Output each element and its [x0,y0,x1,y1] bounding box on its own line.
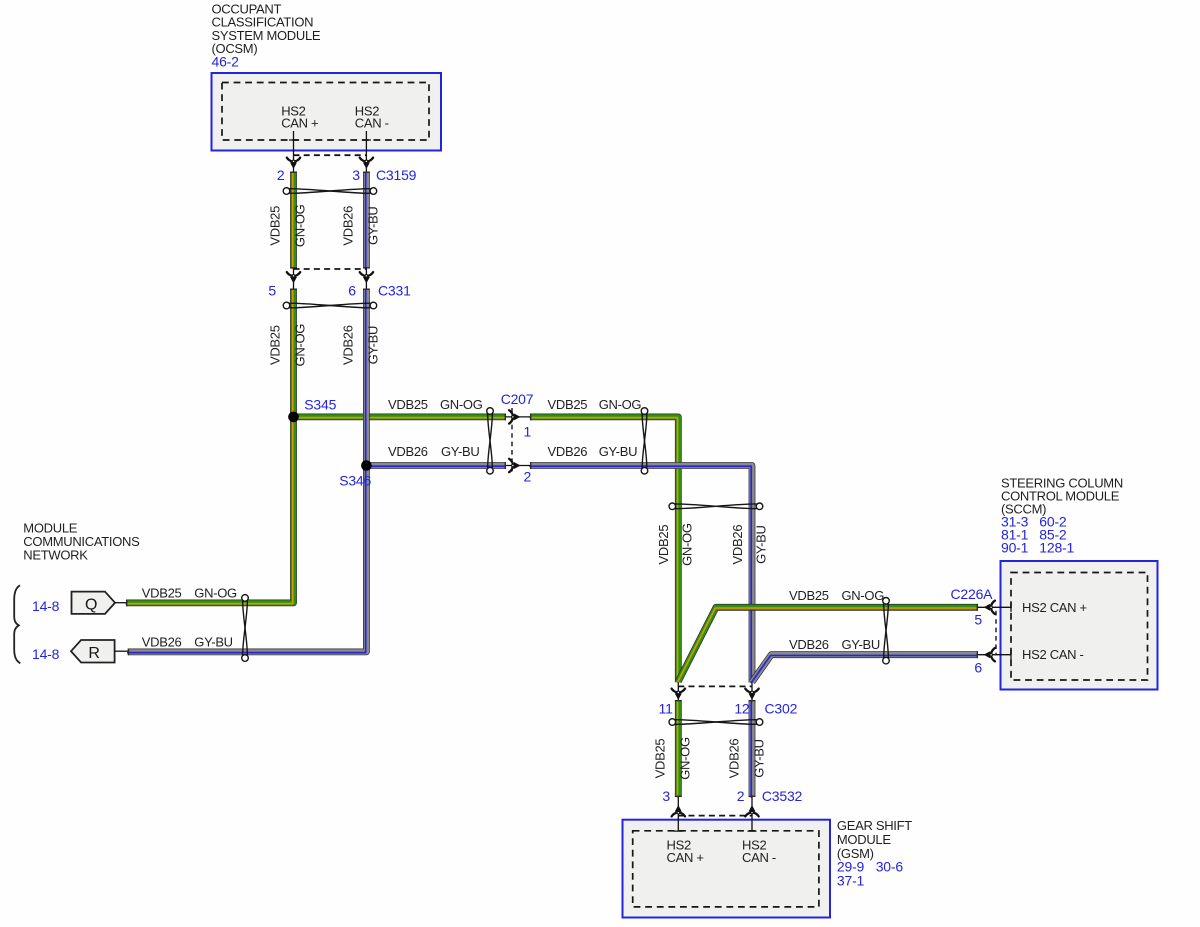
svg-text:VDB26: VDB26 [340,206,355,246]
svg-text:VDB26: VDB26 [789,637,829,652]
svg-text:128-1: 128-1 [1039,539,1074,555]
svg-text:GY-BU: GY-BU [752,739,767,777]
svg-text:VDB25: VDB25 [268,325,283,365]
svg-text:NETWORK: NETWORK [23,548,88,563]
svg-text:6: 6 [974,659,982,675]
svg-text:C3159: C3159 [376,167,417,183]
svg-text:GY-BU: GY-BU [365,326,380,364]
svg-text:14-8: 14-8 [32,646,60,662]
svg-text:1: 1 [524,423,532,439]
svg-text:GY-BU: GY-BU [441,444,479,459]
svg-text:GY-BU: GY-BU [842,637,880,652]
svg-text:MODULE: MODULE [837,832,891,847]
svg-text:C207: C207 [501,391,534,407]
svg-text:VDB26: VDB26 [388,444,428,459]
svg-text:VDB25: VDB25 [656,525,671,565]
svg-text:VDB26: VDB26 [142,635,182,650]
svg-text:R: R [88,645,100,662]
svg-text:Q: Q [85,596,97,613]
svg-text:2: 2 [277,167,285,183]
svg-text:C302: C302 [765,700,798,716]
svg-text:11: 11 [659,700,674,716]
svg-text:GN-OG: GN-OG [440,397,483,412]
svg-text:VDB26: VDB26 [727,739,742,779]
svg-text:CAN -: CAN - [355,116,389,131]
svg-text:C3532: C3532 [762,788,803,804]
svg-text:GN-OG: GN-OG [599,397,642,412]
svg-text:VDB25: VDB25 [268,206,283,246]
svg-text:VDB26: VDB26 [730,525,745,565]
svg-text:VDB25: VDB25 [548,397,588,412]
svg-text:C331: C331 [378,283,411,299]
svg-text:3: 3 [662,788,670,804]
svg-text:14-8: 14-8 [32,598,60,614]
svg-text:VDB25: VDB25 [653,739,668,779]
svg-text:90-1: 90-1 [1001,539,1029,555]
svg-text:CAN +: CAN + [281,116,318,131]
svg-text:CAN +: CAN + [667,850,704,865]
svg-text:GY-BU: GY-BU [194,635,232,650]
svg-text:GN-OG: GN-OG [678,737,693,780]
svg-text:6: 6 [348,283,356,299]
svg-text:2: 2 [524,469,532,485]
svg-text:VDB25: VDB25 [789,588,829,603]
svg-text:2: 2 [737,788,745,804]
svg-text:12: 12 [734,700,750,716]
svg-text:VDB25: VDB25 [388,397,428,412]
svg-text:GY-BU: GY-BU [365,207,380,245]
svg-text:S346: S346 [339,473,371,489]
svg-text:VDB26: VDB26 [548,444,588,459]
svg-text:GY-BU: GY-BU [754,525,769,563]
svg-text:GN-OG: GN-OG [293,324,308,367]
svg-text:GN-OG: GN-OG [842,588,885,603]
svg-text:46-2: 46-2 [212,54,240,70]
svg-text:5: 5 [268,283,276,299]
svg-text:GN-OG: GN-OG [680,523,695,566]
svg-text:GN-OG: GN-OG [293,204,308,247]
svg-text:GY-BU: GY-BU [599,444,637,459]
svg-text:3: 3 [352,167,360,183]
svg-text:HS2 CAN +: HS2 CAN + [1022,600,1087,615]
svg-text:C226A: C226A [951,586,994,602]
svg-text:37-1: 37-1 [837,872,865,888]
svg-text:VDB25: VDB25 [142,586,182,601]
svg-text:S345: S345 [304,396,336,412]
svg-text:HS2 CAN -: HS2 CAN - [1022,647,1084,662]
svg-text:GN-OG: GN-OG [194,586,237,601]
svg-text:CAN -: CAN - [742,850,776,865]
svg-text:30-6: 30-6 [876,859,904,875]
svg-text:GEAR SHIFT: GEAR SHIFT [837,818,912,833]
svg-text:5: 5 [974,612,982,628]
svg-text:VDB26: VDB26 [340,325,355,365]
